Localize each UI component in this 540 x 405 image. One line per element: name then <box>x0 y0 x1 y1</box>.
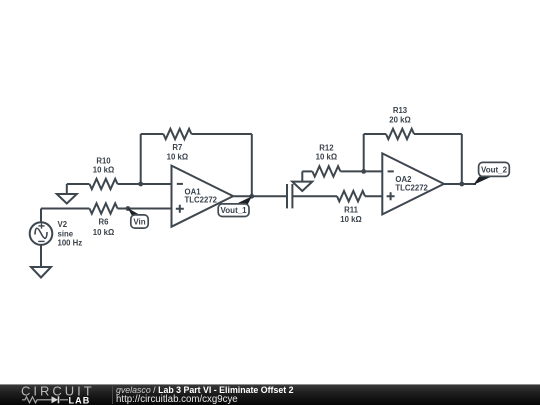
resistor R13 <box>386 129 414 139</box>
svg-text:10 kΩ: 10 kΩ <box>316 153 337 162</box>
resistor R7 <box>163 129 191 139</box>
node <box>361 169 366 174</box>
op-amp OA2 <box>382 153 444 214</box>
svg-text:Vin: Vin <box>133 218 145 227</box>
node <box>138 182 143 187</box>
ground <box>292 171 312 191</box>
resistor R6 <box>90 203 118 213</box>
wire <box>414 133 462 135</box>
wire <box>365 195 382 197</box>
svg-text:R7: R7 <box>172 143 182 152</box>
svg-text:TLC2272: TLC2272 <box>395 183 428 192</box>
svg-text:10 kΩ: 10 kΩ <box>340 215 361 224</box>
voltage source V2 <box>30 209 53 268</box>
svg-text:10 kΩ: 10 kΩ <box>167 152 188 161</box>
node <box>126 206 131 211</box>
wire <box>302 170 312 172</box>
ground <box>57 184 77 204</box>
label R10 value <box>93 106 411 237</box>
resistor R12 <box>312 166 340 176</box>
node Vout_1 flag <box>218 196 252 216</box>
capacitor <box>287 184 337 208</box>
svg-text:100 Hz: 100 Hz <box>58 239 83 248</box>
wire <box>118 183 172 185</box>
wire <box>118 208 172 210</box>
wire <box>364 133 386 135</box>
svg-text:R11: R11 <box>344 206 359 215</box>
node <box>249 194 254 199</box>
wire <box>41 208 90 210</box>
wire <box>363 134 365 171</box>
svg-text:R10: R10 <box>96 156 111 165</box>
op-amp OA1 <box>172 166 234 227</box>
svg-text:R12: R12 <box>319 143 334 152</box>
wire <box>141 133 164 135</box>
resistor R11 <box>337 191 365 201</box>
label V2 value <box>58 175 429 248</box>
svg-text:10 kΩ: 10 kΩ <box>93 228 114 237</box>
svg-text:sine: sine <box>58 229 74 238</box>
wire <box>140 134 142 184</box>
wire <box>251 134 253 196</box>
footer bar <box>0 384 540 405</box>
CircuitLab logo <box>14 384 114 405</box>
wire <box>461 134 463 184</box>
svg-text:V2: V2 <box>58 220 68 229</box>
svg-text:TLC2272: TLC2272 <box>185 196 218 205</box>
node <box>459 182 464 187</box>
wire <box>191 133 251 135</box>
resistor R10 <box>90 179 118 189</box>
svg-text:R6: R6 <box>99 218 110 227</box>
svg-text:LAB: LAB <box>69 396 91 405</box>
ground <box>31 267 51 278</box>
svg-text:Vout_2: Vout_2 <box>481 165 508 174</box>
svg-text:10 kΩ: 10 kΩ <box>93 166 114 175</box>
svg-text:Vout_1: Vout_1 <box>221 206 248 215</box>
svg-text:20 kΩ: 20 kΩ <box>389 116 410 125</box>
wire <box>233 195 287 197</box>
node Vout_2 flag <box>473 162 509 185</box>
node Vin flag <box>128 208 149 228</box>
wire <box>67 183 90 185</box>
wire <box>340 170 382 172</box>
wire <box>444 183 476 185</box>
svg-text:R13: R13 <box>393 106 408 115</box>
